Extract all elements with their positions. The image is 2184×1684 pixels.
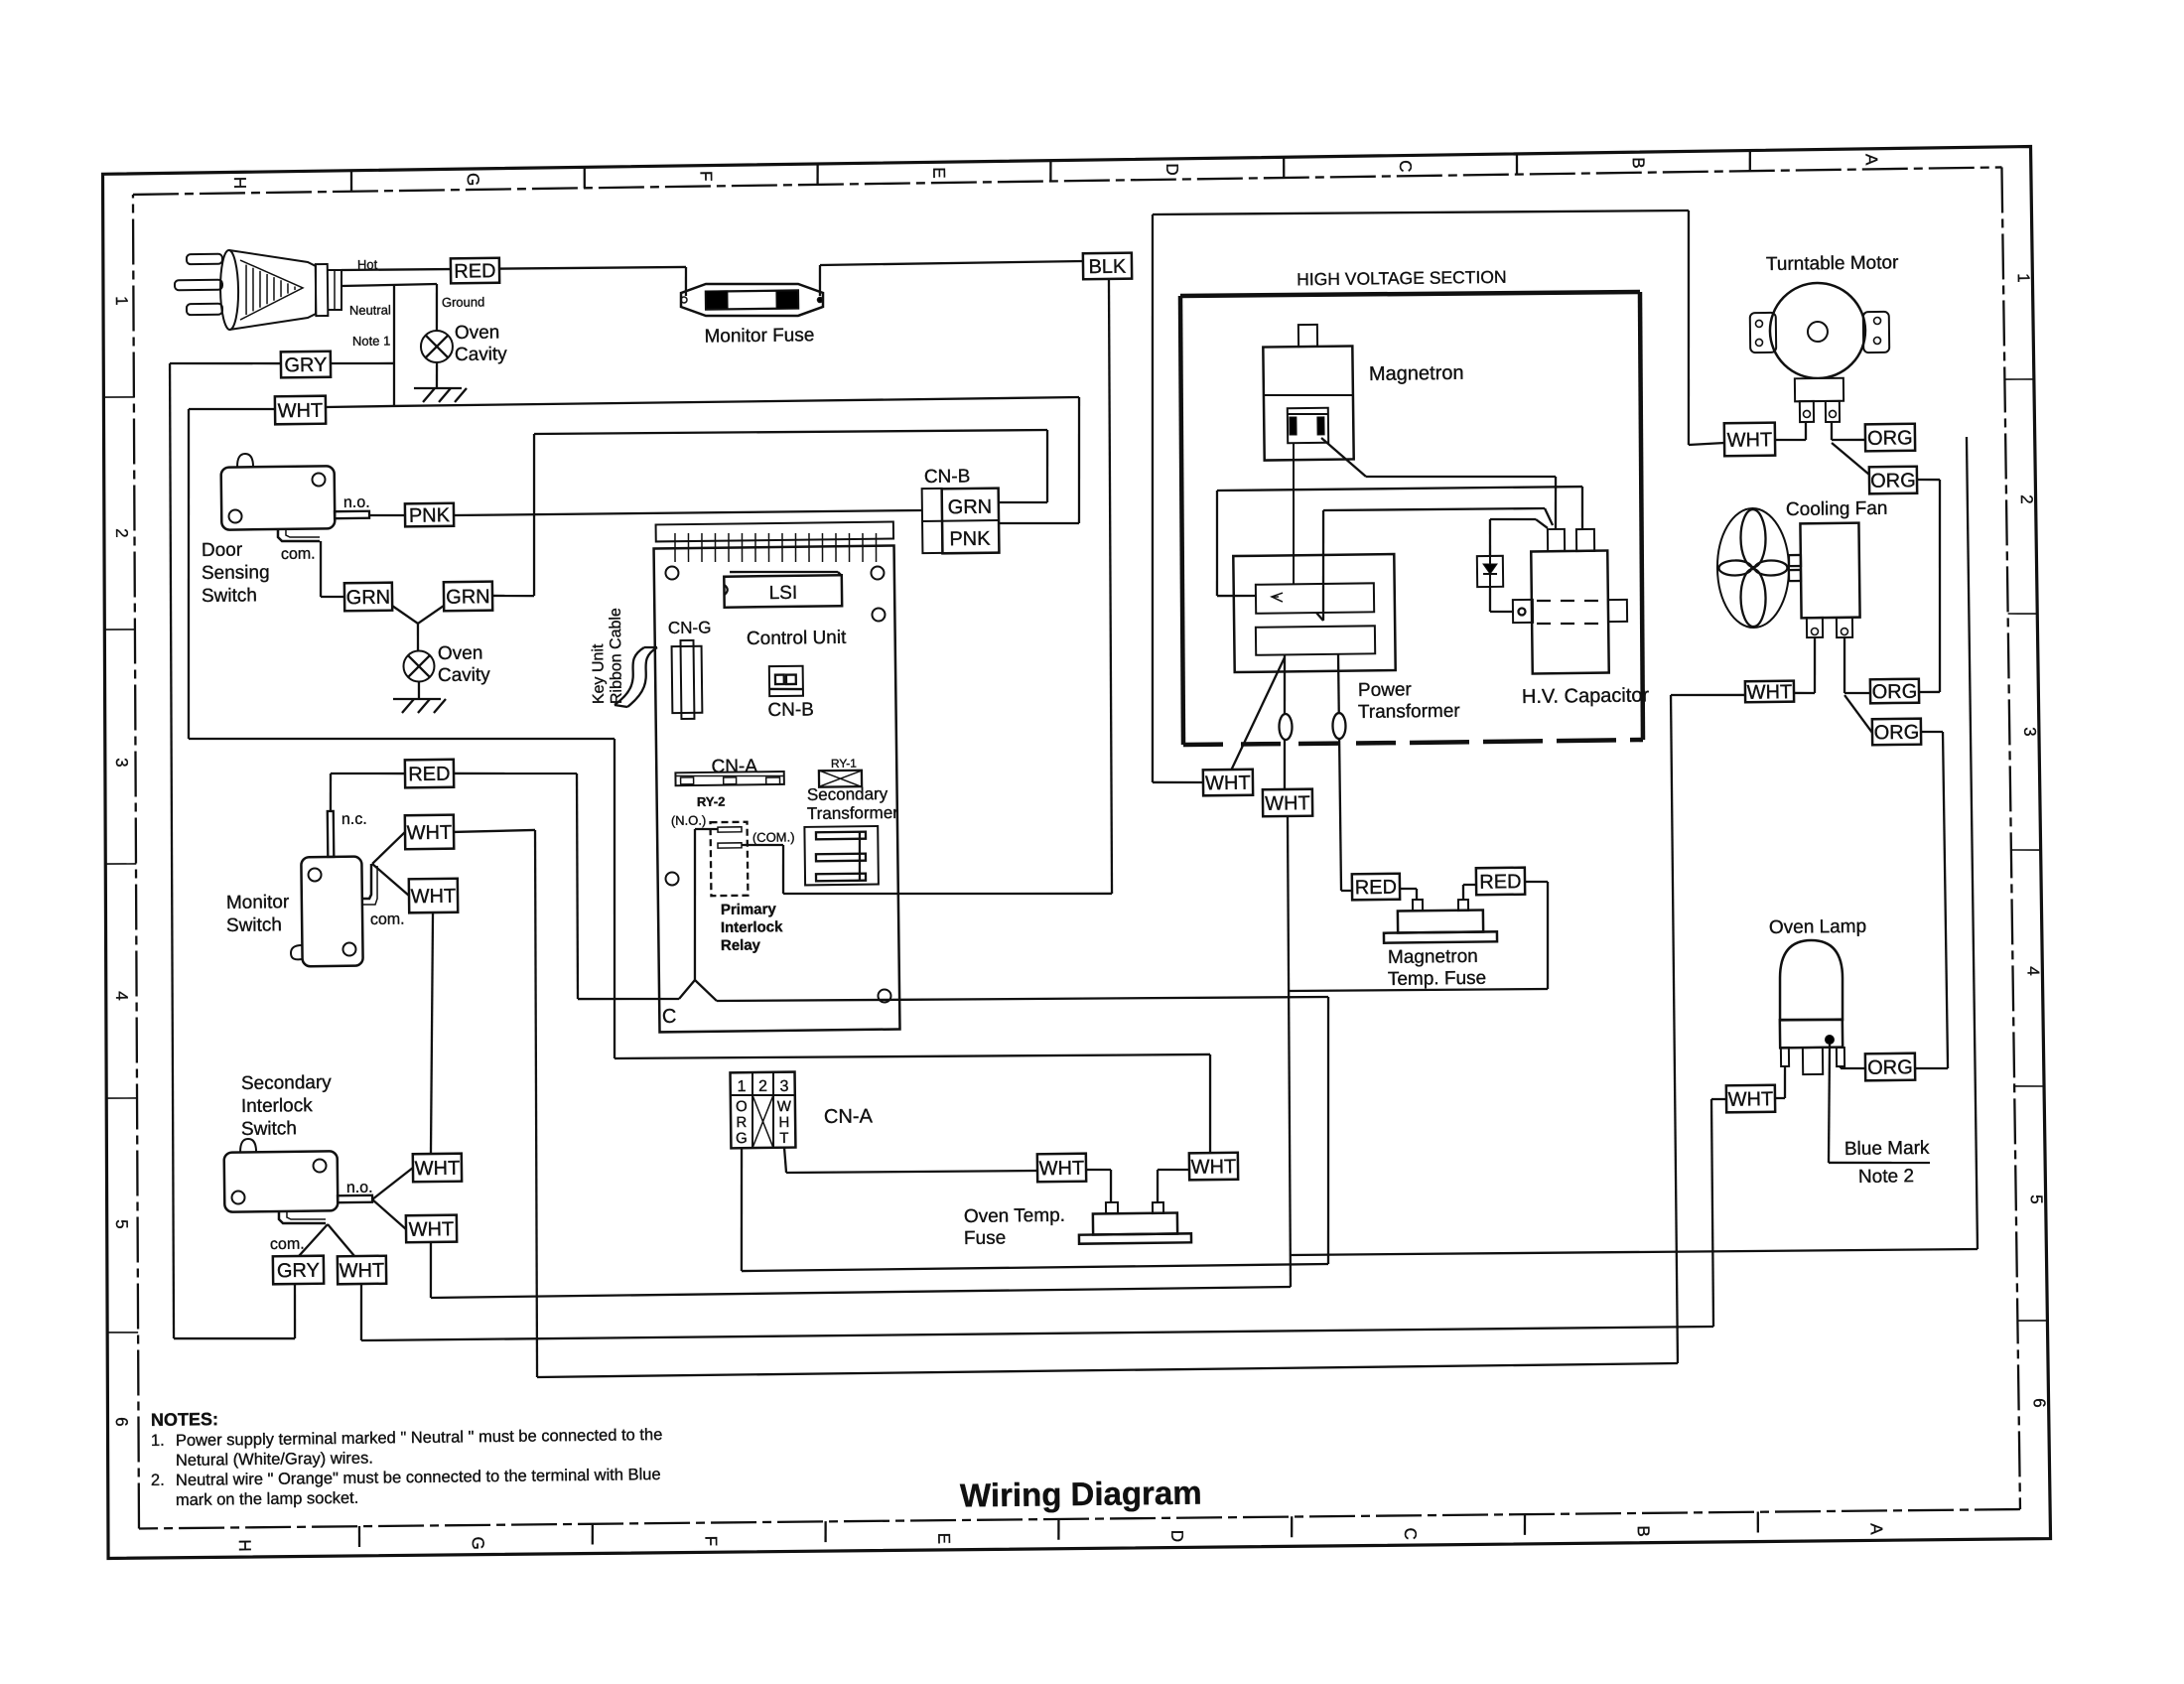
svg-text:E: E	[934, 1533, 953, 1545]
svg-text:Control Unit: Control Unit	[747, 628, 847, 649]
svg-text:Magnetron: Magnetron	[1388, 946, 1478, 968]
svg-text:RED: RED	[408, 764, 450, 786]
svg-text:H.V. Capacitor: H.V. Capacitor	[1522, 684, 1650, 708]
svg-text:D: D	[1162, 163, 1181, 176]
svg-text:3: 3	[112, 758, 131, 768]
svg-text:3: 3	[2020, 727, 2039, 737]
svg-text:GRY: GRY	[284, 354, 327, 377]
svg-text:Turntable Motor: Turntable Motor	[1766, 252, 1899, 275]
svg-text:Note 2: Note 2	[1858, 1166, 1914, 1188]
svg-text:WHT: WHT	[407, 822, 453, 845]
svg-text:C: C	[662, 1006, 677, 1028]
svg-text:Switch: Switch	[202, 585, 257, 607]
svg-text:1: 1	[737, 1078, 746, 1095]
svg-text:(COM.): (COM.)	[752, 829, 795, 845]
svg-text:Oven: Oven	[455, 322, 500, 344]
svg-text:Oven Temp.: Oven Temp.	[964, 1205, 1065, 1227]
svg-text:Transformer: Transformer	[807, 803, 899, 823]
svg-text:CN-B: CN-B	[767, 699, 814, 721]
svg-text:Key Unit: Key Unit	[590, 643, 608, 704]
svg-text:C: C	[1396, 160, 1415, 173]
svg-text:Transformer: Transformer	[1358, 701, 1461, 723]
svg-text:2: 2	[758, 1078, 767, 1095]
svg-text:Switch: Switch	[241, 1118, 297, 1140]
svg-text:GRN: GRN	[948, 496, 993, 519]
svg-text:n.o.: n.o.	[346, 1180, 373, 1196]
svg-text:PNK: PNK	[409, 504, 451, 527]
svg-text:RY-1: RY-1	[831, 757, 858, 771]
svg-text:PNK: PNK	[949, 528, 991, 551]
svg-text:4: 4	[112, 991, 131, 1001]
svg-text:RED: RED	[1479, 871, 1521, 894]
svg-text:Ribbon Cable: Ribbon Cable	[608, 608, 625, 704]
svg-text:6: 6	[112, 1417, 131, 1427]
svg-text:WHT: WHT	[1265, 792, 1310, 815]
svg-text:WHT: WHT	[1191, 1156, 1237, 1179]
svg-text:CN-B: CN-B	[924, 466, 971, 488]
svg-text:O: O	[736, 1098, 748, 1115]
svg-text:T: T	[779, 1130, 788, 1147]
svg-text:GRY: GRY	[277, 1260, 320, 1283]
svg-text:D: D	[1167, 1530, 1186, 1543]
svg-text:H: H	[230, 177, 249, 190]
svg-text:Cavity: Cavity	[438, 664, 491, 686]
svg-text:ORG: ORG	[1870, 470, 1916, 492]
svg-text:1.: 1.	[151, 1432, 165, 1450]
svg-text:LSI: LSI	[769, 583, 798, 604]
svg-text:Primary: Primary	[721, 901, 777, 918]
svg-text:Netural (White/Gray) wires.: Netural (White/Gray) wires.	[176, 1450, 373, 1470]
svg-text:A: A	[1867, 1523, 1886, 1535]
svg-text:WHT: WHT	[340, 1260, 385, 1283]
svg-text:BLK: BLK	[1088, 256, 1127, 278]
svg-text:Door: Door	[202, 540, 243, 562]
svg-text:5: 5	[112, 1219, 131, 1229]
svg-text:Note 1: Note 1	[352, 333, 390, 348]
svg-text:RED: RED	[454, 260, 496, 283]
svg-text:com.: com.	[270, 1236, 305, 1253]
svg-text:3: 3	[779, 1078, 788, 1095]
svg-text:Secondary: Secondary	[241, 1072, 333, 1094]
svg-text:H: H	[235, 1539, 254, 1552]
svg-text:G: G	[464, 173, 482, 186]
svg-text:RED: RED	[1355, 877, 1398, 900]
svg-text:WHT: WHT	[1039, 1158, 1085, 1181]
svg-text:(N.O.): (N.O.)	[671, 813, 707, 828]
svg-text:W: W	[777, 1098, 792, 1115]
svg-text:Interlock: Interlock	[241, 1095, 314, 1117]
svg-text:H: H	[778, 1114, 789, 1131]
svg-text:WHT: WHT	[409, 1218, 455, 1241]
svg-text:Interlock: Interlock	[721, 918, 783, 936]
svg-text:CN-G: CN-G	[668, 618, 712, 637]
svg-text:2: 2	[112, 528, 131, 538]
svg-text:Relay: Relay	[721, 936, 761, 953]
svg-text:G: G	[469, 1536, 487, 1549]
svg-text:Switch: Switch	[226, 914, 282, 936]
svg-text:Cavity: Cavity	[455, 344, 508, 365]
svg-text:Neutral: Neutral	[349, 302, 391, 318]
svg-text:R: R	[736, 1114, 747, 1131]
svg-text:CN-A: CN-A	[711, 756, 757, 777]
svg-text:Cooling Fan: Cooling Fan	[1786, 498, 1888, 520]
svg-text:Wiring Diagram: Wiring Diagram	[960, 1473, 1202, 1513]
svg-text:F: F	[702, 1536, 721, 1547]
svg-text:G: G	[736, 1130, 748, 1147]
svg-text:WHT: WHT	[1205, 772, 1251, 795]
svg-text:NOTES:: NOTES:	[151, 1409, 218, 1430]
svg-text:Secondary: Secondary	[807, 784, 888, 804]
svg-text:6: 6	[2030, 1398, 2049, 1408]
svg-text:Ground: Ground	[442, 294, 485, 310]
svg-text:1: 1	[112, 296, 131, 306]
svg-text:WHT: WHT	[1727, 429, 1773, 452]
svg-text:WHT: WHT	[1728, 1088, 1774, 1111]
svg-text:Sensing: Sensing	[202, 562, 270, 584]
svg-text:Monitor: Monitor	[226, 892, 290, 913]
svg-text:Oven: Oven	[438, 642, 483, 664]
svg-text:GRN: GRN	[446, 586, 490, 609]
svg-text:ORG: ORG	[1867, 1056, 1913, 1079]
svg-text:Monitor Fuse: Monitor Fuse	[704, 325, 814, 347]
svg-text:RY-2: RY-2	[697, 794, 726, 809]
svg-text:GRN: GRN	[346, 587, 391, 610]
svg-text:ORG: ORG	[1872, 681, 1918, 704]
svg-text:ORG: ORG	[1867, 427, 1913, 450]
svg-text:Power: Power	[1358, 679, 1413, 701]
svg-text:B: B	[1629, 157, 1648, 169]
svg-text:CN-A: CN-A	[824, 1105, 874, 1128]
svg-text:mark on the lamp socket.: mark on the lamp socket.	[176, 1489, 359, 1509]
svg-text:WHT: WHT	[415, 1158, 461, 1181]
svg-text:F: F	[697, 171, 716, 182]
svg-text:2.: 2.	[151, 1472, 165, 1489]
svg-text:2: 2	[2017, 494, 2036, 504]
svg-text:WHT: WHT	[1747, 681, 1793, 704]
svg-text:WHT: WHT	[278, 400, 324, 423]
svg-text:Oven Lamp: Oven Lamp	[1769, 916, 1866, 938]
svg-text:1: 1	[2014, 273, 2033, 283]
svg-text:B: B	[1634, 1525, 1653, 1537]
svg-text:ORG: ORG	[1874, 722, 1920, 745]
svg-text:Temp. Fuse: Temp. Fuse	[1388, 968, 1487, 990]
svg-text:4: 4	[2024, 966, 2043, 976]
svg-text:n.o.: n.o.	[343, 494, 370, 511]
svg-text:Magnetron: Magnetron	[1369, 362, 1464, 385]
svg-text:5: 5	[2027, 1194, 2046, 1204]
svg-text:WHT: WHT	[411, 886, 457, 909]
svg-text:E: E	[929, 167, 948, 179]
svg-text:Fuse: Fuse	[964, 1227, 1007, 1249]
svg-text:A: A	[1861, 154, 1880, 166]
svg-text:HIGH VOLTAGE SECTION: HIGH VOLTAGE SECTION	[1297, 267, 1507, 290]
svg-text:Blue Mark: Blue Mark	[1844, 1138, 1930, 1160]
svg-text:C: C	[1401, 1527, 1420, 1540]
svg-text:n.c.: n.c.	[341, 811, 367, 828]
svg-text:com.: com.	[281, 546, 316, 563]
svg-text:com.: com.	[370, 912, 405, 928]
